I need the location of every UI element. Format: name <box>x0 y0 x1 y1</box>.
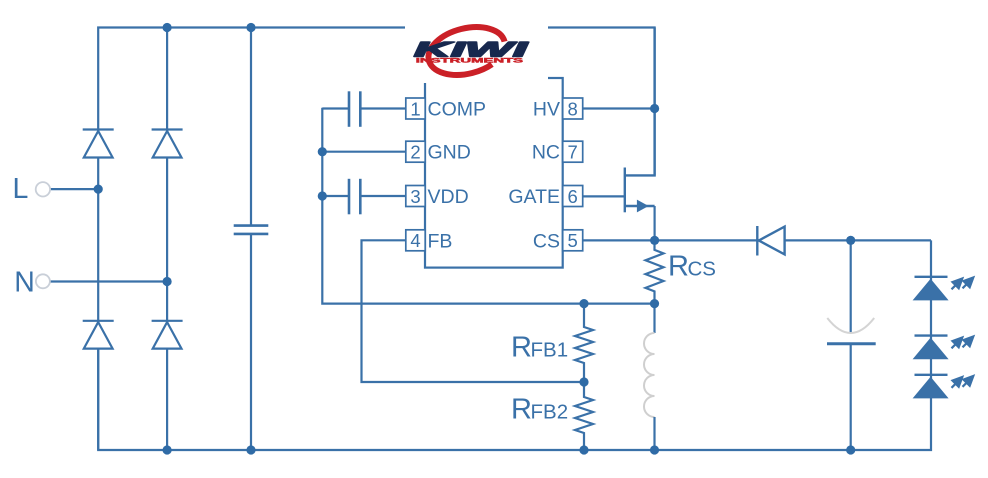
svg-text:CS: CS <box>688 258 716 281</box>
node top rail / bridge col2 <box>163 23 172 32</box>
node bottom col2 <box>163 445 172 454</box>
LED D8 <box>913 375 974 399</box>
node gnd rail pin3 <box>318 191 327 200</box>
svg-text:R: R <box>668 251 689 283</box>
pin 7 box <box>563 141 583 162</box>
node N / bridge col2 <box>163 277 172 286</box>
LED D6 <box>913 277 974 301</box>
svg-text:FB2: FB2 <box>531 401 569 424</box>
resistor RFB2 <box>511 382 593 450</box>
wire comp cap <box>322 107 406 109</box>
svg-text:COMP: COMP <box>428 99 487 121</box>
pin 2 box <box>406 141 425 162</box>
node bottom inductor <box>650 445 659 454</box>
resistor RCS <box>646 240 716 303</box>
resistor RFB1 <box>511 304 593 382</box>
node bottom rfb2 <box>579 445 588 454</box>
wire fb pin path <box>362 240 585 382</box>
svg-text:FB: FB <box>428 230 453 252</box>
wire N input <box>50 280 167 282</box>
svg-text:VDD: VDD <box>428 186 469 208</box>
node out cap top <box>846 236 855 245</box>
svg-text:1: 1 <box>410 98 420 119</box>
node gnd rfb1 <box>579 299 588 308</box>
svg-text:7: 7 <box>568 142 578 163</box>
svg-text:INSTRUMENTS: INSTRUMENTS <box>416 57 524 64</box>
svg-text:GND: GND <box>428 142 471 164</box>
svg-text:8: 8 <box>568 98 578 119</box>
wire cs output row <box>583 239 931 241</box>
wire gate pin <box>583 195 625 197</box>
diode D1 bridge top-left <box>83 130 114 158</box>
node fb divider <box>579 377 588 386</box>
pin 3 box <box>406 186 425 207</box>
wire input cap column <box>250 28 252 451</box>
wire output cap top lead <box>850 240 852 333</box>
svg-text:3: 3 <box>410 186 420 207</box>
svg-text:FB1: FB1 <box>531 339 569 362</box>
svg-text:L: L <box>13 173 29 205</box>
svg-text:GATE: GATE <box>508 186 560 208</box>
pin 8 box <box>563 98 583 119</box>
svg-text:N: N <box>14 266 35 298</box>
wire output cap bottom lead <box>850 344 852 450</box>
node L / bridge col1 <box>94 185 103 194</box>
node rcs bottom <box>650 299 659 308</box>
logo background panel <box>405 2 548 83</box>
svg-text:5: 5 <box>568 230 578 251</box>
capacitor C1 COMP <box>349 91 360 127</box>
svg-text:2: 2 <box>410 142 420 163</box>
diode D4 bridge bottom-right <box>152 321 183 349</box>
wire top rail <box>98 28 654 176</box>
wire pin2 to gnd rail <box>322 151 406 153</box>
svg-text:6: 6 <box>568 186 578 207</box>
node bottom cin <box>246 445 255 454</box>
pin 1 box <box>406 98 425 119</box>
terminal L <box>13 173 51 205</box>
node bottom out cap <box>846 445 855 454</box>
LED D7 <box>913 336 974 360</box>
node top rail / cin <box>246 23 255 32</box>
capacitor COUT <box>827 318 876 344</box>
wire L input <box>50 188 98 190</box>
pin 5 box <box>563 230 583 251</box>
IC U1 body <box>425 78 563 268</box>
pin 4 box <box>406 230 425 251</box>
node cs <box>650 236 659 245</box>
capacitor C2 VDD <box>349 179 360 215</box>
wire hv pin to drain column <box>583 107 655 109</box>
transistor Q1 internal MOSFET <box>625 28 655 213</box>
diode D5 freewheeling <box>757 226 784 256</box>
wire bridge column 2 <box>166 28 168 451</box>
diode D3 bridge bottom-left <box>83 321 114 349</box>
node hv drain <box>650 104 659 113</box>
diode D2 bridge top-right <box>152 130 183 158</box>
svg-text:4: 4 <box>410 230 420 251</box>
node dots <box>94 23 856 455</box>
node gnd rail pin2 <box>318 147 327 156</box>
wire source to cs node <box>653 206 655 240</box>
wire bottom rail <box>98 240 931 450</box>
pin 6 box <box>563 186 583 207</box>
terminal N <box>14 266 50 298</box>
svg-text:HV: HV <box>533 99 560 121</box>
inductor L1 <box>644 304 655 450</box>
svg-text:NC: NC <box>532 142 560 164</box>
wire gnd rail left <box>322 108 654 304</box>
svg-text:CS: CS <box>533 230 560 252</box>
svg-text:R: R <box>511 394 532 426</box>
wire bridge column 1 <box>97 129 99 450</box>
wire vdd cap <box>322 195 406 197</box>
capacitor CIN <box>234 226 269 234</box>
svg-text:R: R <box>511 332 532 364</box>
logo swoosh ellipse <box>423 20 510 83</box>
